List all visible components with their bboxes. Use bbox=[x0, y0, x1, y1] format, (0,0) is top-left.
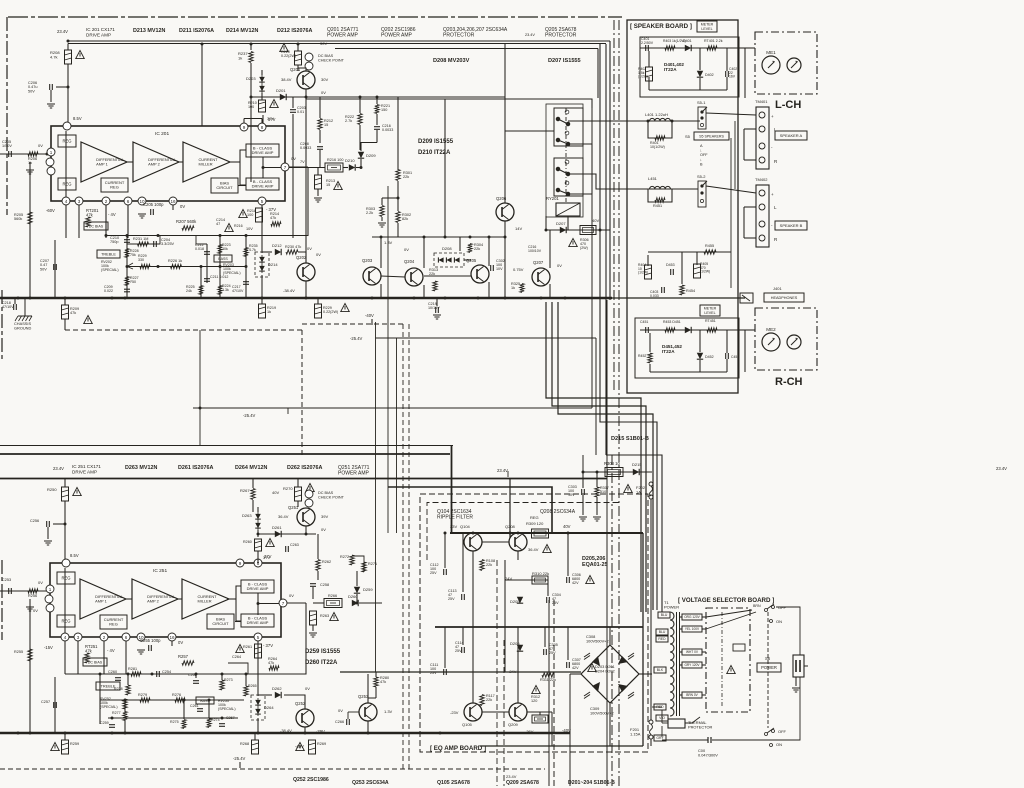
svg-text:RT201 47k: RT201 47k bbox=[86, 208, 100, 218]
r312 stub bbox=[539, 712, 541, 715]
q205 vert bbox=[488, 237, 490, 266]
wire protector rail bbox=[372, 236, 505, 238]
Q253 down b bbox=[367, 721, 369, 733]
svg-text:C258: C258 bbox=[320, 583, 329, 587]
svg-text:BLK: BLK bbox=[657, 668, 664, 672]
svg-text:C254: C254 bbox=[162, 670, 171, 674]
pin9 pin8 link bbox=[244, 118, 262, 120]
long vert 607 bbox=[606, 300, 608, 786]
wire q104 q208 base bbox=[482, 541, 509, 543]
svg-text:0V: 0V bbox=[404, 247, 409, 252]
svg-text:23.4V: 23.4V bbox=[506, 774, 517, 779]
harness eq 3 bbox=[569, 674, 571, 786]
red mid wire bbox=[652, 706, 662, 708]
svg-text:C204 3.3/25V: C204 3.3/25V bbox=[161, 238, 175, 246]
ground C219 bbox=[433, 315, 441, 319]
c303 up bbox=[582, 472, 584, 488]
svg-text:R452: R452 bbox=[638, 354, 646, 358]
resistor R206 bbox=[28, 152, 38, 156]
svg-text:C216 100/10V: C216 100/10V bbox=[528, 245, 542, 253]
wire out row2 bbox=[343, 167, 348, 169]
relay contact 2 point 0 bbox=[565, 160, 569, 164]
svg-text:S5: S5 bbox=[685, 134, 691, 139]
svg-text:RY201: RY201 bbox=[546, 196, 559, 201]
svg-text:Q208: Q208 bbox=[505, 524, 516, 529]
svg-text:D201: D201 bbox=[276, 88, 286, 93]
warning R306 bbox=[569, 239, 578, 247]
warning R270 bbox=[306, 484, 315, 492]
svg-text:DC BIAS: DC BIAS bbox=[88, 660, 103, 664]
speaker R feed bbox=[614, 188, 698, 190]
R302 down bbox=[397, 223, 399, 237]
IC201 bottom pin 16 bbox=[169, 197, 177, 205]
svg-text:R207 560k: R207 560k bbox=[176, 219, 197, 224]
svg-text:[ SPEAKER BOARD ]: [ SPEAKER BOARD ] bbox=[630, 23, 692, 30]
svg-text:R276: R276 bbox=[172, 693, 181, 697]
svg-text:Q203,204,206,207 2SC634A: Q203,204,206,207 2SC634A PROTECTOR bbox=[443, 27, 508, 39]
svg-text:C112 100 25V: C112 100 25V bbox=[430, 563, 440, 575]
svg-text:0V: 0V bbox=[33, 608, 38, 613]
R303 up stub bbox=[381, 198, 383, 205]
transformer T1 primary bbox=[670, 612, 680, 716]
warning R261 bbox=[236, 645, 245, 653]
filter v5 bbox=[699, 78, 701, 90]
svg-text:R205 560k: R205 560k bbox=[14, 213, 24, 221]
IC201 wire to drive top bbox=[240, 150, 246, 162]
bridge rectifier D201-D204 bbox=[581, 645, 639, 703]
svg-text:36.4V: 36.4V bbox=[278, 514, 289, 519]
svg-text:Q206: Q206 bbox=[496, 196, 507, 201]
tap wire wht bbox=[680, 651, 682, 653]
IC201 wire cm-b1 bbox=[230, 161, 240, 163]
wire label VIO bbox=[656, 715, 668, 721]
resistor RT401 bbox=[707, 46, 717, 50]
svg-text:D203 D201 D204 D202: D203 D201 D204 D202 bbox=[595, 664, 616, 674]
svg-text:POWER: POWER bbox=[761, 665, 777, 670]
diode D263 bbox=[255, 512, 261, 530]
svg-text:C257: C257 bbox=[41, 700, 50, 704]
svg-text:23.4V: 23.4V bbox=[497, 468, 508, 473]
ground input bbox=[26, 170, 34, 174]
capacitor C401 bbox=[646, 45, 649, 51]
c303 down bbox=[582, 495, 584, 515]
harness eq 2 bbox=[553, 600, 555, 786]
svg-text:C00 0.047/300V: C00 0.047/300V bbox=[698, 748, 718, 757]
tone rail low b bbox=[108, 717, 238, 719]
resistor R276 bbox=[175, 698, 185, 702]
R212 up bbox=[319, 97, 321, 118]
svg-text:ON: ON bbox=[776, 619, 782, 624]
resistor R209 bbox=[62, 305, 69, 319]
wire q201 top rail bbox=[320, 96, 398, 98]
svg-text:C266: C266 bbox=[335, 720, 344, 724]
tone vert x201 bbox=[200, 267, 202, 299]
svg-text:D212: D212 bbox=[272, 243, 282, 248]
svg-text:D213 MV12N: D213 MV12N bbox=[133, 28, 165, 34]
resistor R255 bbox=[28, 649, 32, 661]
svg-text:-15V: -15V bbox=[44, 645, 53, 650]
capacitor C306 bbox=[567, 577, 570, 583]
resistor R261 bbox=[255, 644, 262, 658]
node C206 bbox=[67, 86, 70, 89]
tap wire org bbox=[680, 616, 682, 618]
wire relay 40V row bbox=[546, 229, 610, 231]
eq b v1 bbox=[444, 627, 446, 668]
svg-text:T1 POWER: T1 POWER bbox=[664, 600, 679, 609]
svg-text:S5-2: S5-2 bbox=[697, 174, 706, 179]
IC251 wire to drive top bbox=[236, 586, 241, 599]
D203 top bbox=[261, 70, 263, 75]
dashed board left vert bbox=[301, 330, 303, 455]
ground C303 bbox=[579, 517, 587, 521]
IC251 pin 1 bbox=[46, 585, 54, 593]
C207 vertical bbox=[54, 240, 56, 298]
svg-text:D401,402 IT22A: D401,402 IT22A bbox=[664, 62, 685, 72]
IC201 pin 7 bbox=[281, 163, 289, 171]
svg-text:D453: D453 bbox=[666, 263, 675, 267]
svg-text:RT251 47k: RT251 47k bbox=[85, 644, 99, 654]
svg-text:37V: 37V bbox=[263, 555, 270, 560]
svg-text:REG: REG bbox=[530, 515, 539, 520]
capacitor C304 bbox=[547, 597, 550, 603]
arrow down 254 bbox=[239, 762, 241, 768]
eq v2 bbox=[462, 533, 464, 592]
svg-text:D401: D401 bbox=[683, 39, 692, 43]
svg-text:A ↓ OFF ↓ B: A ↓ OFF ↓ B bbox=[700, 144, 709, 166]
wire -25.4V lower bbox=[376, 337, 597, 339]
wire out row b bbox=[287, 602, 306, 604]
bus right vertical C bbox=[609, 41, 611, 300]
svg-text:40V: 40V bbox=[563, 524, 571, 529]
selector diag 2 bbox=[706, 612, 756, 629]
IC201 pin7 inner wire bbox=[263, 167, 281, 169]
resistor RT201 bbox=[86, 217, 90, 227]
transistor Q252 bbox=[296, 709, 314, 727]
svg-text:23.4V: 23.4V bbox=[57, 29, 68, 34]
svg-text:R216 100: R216 100 bbox=[327, 158, 343, 162]
tone rail top nodes bbox=[105, 234, 248, 237]
svg-text:9: 9 bbox=[239, 561, 242, 566]
inner frame top bbox=[335, 48, 598, 50]
eq b v4 bbox=[544, 627, 546, 647]
pin2 down b bbox=[103, 641, 105, 674]
svg-text:5: 5 bbox=[261, 199, 264, 204]
relay input stub bbox=[505, 130, 554, 132]
capacitor C261 bbox=[197, 709, 203, 712]
resistor R267 bbox=[251, 489, 255, 500]
dashed horiz y324 bbox=[302, 323, 403, 325]
rch meter vert bbox=[744, 330, 746, 372]
svg-text:BLU: BLU bbox=[659, 630, 666, 634]
speaker board outline bbox=[627, 20, 738, 393]
C203 drop bbox=[292, 114, 294, 238]
svg-text:MILLER: MILLER bbox=[199, 162, 213, 167]
svg-text:R225 24k: R225 24k bbox=[186, 285, 196, 293]
plug to bottom bbox=[712, 677, 800, 740]
svg-text:0V: 0V bbox=[307, 246, 312, 251]
C219 wire bbox=[436, 298, 438, 306]
svg-text:Q209: Q209 bbox=[508, 722, 519, 727]
svg-text:C210 750p: C210 750p bbox=[110, 236, 120, 244]
svg-text:R267: R267 bbox=[240, 488, 250, 493]
diode D208 c bbox=[454, 257, 459, 262]
warning R312 bbox=[532, 686, 541, 694]
L401 nodes bbox=[647, 120, 674, 123]
R250 to node b bbox=[64, 501, 66, 563]
IC201 inner node bbox=[262, 166, 265, 169]
IC251 bottom pin 4 bbox=[61, 633, 69, 641]
bridge top wire bbox=[609, 627, 611, 645]
svg-text:R402 1.5k (1/2W): R402 1.5k (1/2W) bbox=[638, 67, 648, 79]
svg-text:RV203 100k (SPECIAL): RV203 100k (SPECIAL) bbox=[223, 263, 241, 275]
transistor Q253 bbox=[359, 703, 377, 721]
svg-text:C452: C452 bbox=[731, 355, 739, 359]
q209 emitter wire bbox=[527, 711, 552, 713]
fuse F202 bbox=[649, 482, 653, 499]
spk vert a bbox=[743, 129, 745, 160]
resistor RT251 bbox=[85, 653, 89, 663]
capacitor C266 bbox=[347, 719, 350, 725]
relay link dash-dot bbox=[565, 108, 567, 204]
svg-text:-25.4V: -25.4V bbox=[243, 413, 256, 418]
resistor R108 22k bbox=[480, 560, 484, 571]
IC201 wire a1-a2 bbox=[127, 161, 133, 163]
svg-text:RV252 100k (SPECIAL): RV252 100k (SPECIAL) bbox=[100, 697, 118, 709]
svg-text:1.3V: 1.3V bbox=[384, 709, 393, 714]
SPEAKER A box bbox=[775, 131, 807, 140]
tone vert b b bbox=[195, 674, 197, 678]
warning C307 bbox=[588, 664, 597, 672]
switch S5-1 bbox=[698, 107, 707, 129]
diode D212 bbox=[275, 249, 281, 255]
svg-text:4: 4 bbox=[65, 199, 68, 204]
svg-text:S5-1: S5-1 bbox=[697, 100, 706, 105]
svg-text:Q205 2SA678 PROTECTOR: Q205 2SA678 PROTECTOR bbox=[545, 27, 578, 39]
capacitor C206 bbox=[50, 84, 53, 90]
svg-text:REG: REG bbox=[109, 622, 118, 627]
svg-text:R451: R451 bbox=[653, 204, 662, 208]
pin3 down bbox=[78, 205, 80, 238]
meter level box top bbox=[697, 21, 717, 32]
IC201 pin 1 bbox=[47, 148, 55, 156]
wire top right rail bbox=[380, 96, 505, 98]
svg-text:1: 1 bbox=[50, 150, 53, 155]
R270 up bbox=[297, 479, 299, 488]
C216 down bbox=[376, 130, 378, 143]
svg-text:C209 0.022: C209 0.022 bbox=[104, 285, 114, 293]
svg-text:R117 22k: R117 22k bbox=[486, 694, 496, 702]
svg-text:C401 2.2/50V: C401 2.2/50V bbox=[641, 37, 654, 45]
capacitor C111 bbox=[444, 669, 447, 675]
diode D452 bbox=[697, 353, 703, 359]
capacitor C258b bbox=[310, 584, 316, 587]
resistor R212 15 bbox=[318, 119, 322, 130]
input wire R bbox=[0, 590, 47, 592]
svg-text:DC BIAS CHECK POINT: DC BIAS CHECK POINT bbox=[318, 491, 345, 499]
pin7 wire b bbox=[287, 602, 306, 604]
svg-text:7: 7 bbox=[284, 165, 287, 170]
resistor R221 150 bbox=[375, 105, 379, 114]
wire label GRY2 bbox=[654, 735, 666, 741]
selector wire wht bbox=[702, 651, 706, 653]
svg-text:7V: 7V bbox=[300, 160, 305, 164]
top dash-dot border bbox=[8, 16, 622, 18]
relay arm 1a bbox=[558, 119, 568, 124]
svg-text:AMP 2: AMP 2 bbox=[148, 162, 160, 167]
filter bottom wire bbox=[649, 89, 727, 91]
svg-text:L451: L451 bbox=[648, 176, 658, 181]
wire q105 q209 link bbox=[482, 711, 509, 713]
EQ amp board dashed outline bbox=[420, 494, 648, 752]
pin16 down b bbox=[171, 641, 173, 646]
svg-text:23V: 23V bbox=[450, 524, 457, 529]
c264 wire bbox=[228, 663, 248, 674]
long vertical x388 bbox=[387, 186, 389, 533]
23.4V feed line B bbox=[388, 487, 552, 533]
wire 1.3V drop bbox=[459, 237, 461, 251]
harness wire 1 bbox=[552, 302, 646, 612]
filter v2 bbox=[699, 48, 701, 70]
svg-text:R304 22k: R304 22k bbox=[474, 243, 484, 251]
svg-text:0V: 0V bbox=[289, 593, 294, 598]
resistor R401 bbox=[655, 136, 665, 140]
capacitor C211 bbox=[204, 279, 210, 282]
relay arm 1b bbox=[558, 140, 568, 144]
L-CH meter dash box bbox=[755, 32, 817, 94]
meter level box bottom bbox=[700, 305, 720, 316]
output nodes bbox=[17, 297, 567, 300]
capacitor C204 bbox=[154, 241, 157, 247]
svg-text:R226 1k: R226 1k bbox=[168, 259, 182, 263]
wire D201 row bbox=[251, 96, 320, 98]
vertical x200 link bbox=[199, 330, 201, 446]
svg-text:Q252 2SC1986: Q252 2SC1986 bbox=[293, 777, 329, 783]
svg-text:-36V: -36V bbox=[525, 729, 534, 734]
spk vert b bbox=[743, 207, 745, 238]
eq v4 bbox=[547, 580, 549, 596]
left dash-dot border bbox=[6, 17, 8, 215]
POWER box S6 bbox=[757, 663, 781, 672]
relay arm 2b bbox=[558, 190, 568, 194]
svg-text:C267: C267 bbox=[226, 716, 235, 720]
IC251 internal 8.5V vertical bbox=[64, 568, 66, 633]
switch S6 contact bottom bbox=[765, 728, 775, 747]
capacitor C216 bbox=[374, 127, 380, 130]
x200 node bbox=[199, 407, 202, 410]
svg-text:D211 IS2076A: D211 IS2076A bbox=[179, 28, 214, 34]
svg-text:BRN: BRN bbox=[753, 604, 761, 608]
left branch vert b bbox=[29, 599, 31, 733]
relay contact 1 point 5 bbox=[566, 142, 570, 146]
svg-text:L: L bbox=[774, 205, 777, 210]
C218 wire bbox=[14, 298, 16, 304]
svg-text:R262: R262 bbox=[322, 560, 331, 564]
tone vert x207 bbox=[206, 244, 208, 283]
svg-text:IC 201 CX171 DRIVE AMP: IC 201 CX171 DRIVE AMP bbox=[86, 27, 116, 37]
capacitor C403 bbox=[662, 287, 665, 293]
svg-text:Q208 2SC634A: Q208 2SC634A bbox=[540, 509, 576, 515]
svg-text:REG: REG bbox=[62, 182, 71, 187]
tone x207 top link bbox=[196, 236, 207, 245]
svg-text:6: 6 bbox=[125, 635, 128, 640]
harness wire 0 bbox=[546, 302, 641, 612]
svg-text:D261 IS2076A: D261 IS2076A bbox=[178, 465, 213, 471]
svg-text:R259: R259 bbox=[70, 742, 79, 746]
wire label RED1 bbox=[656, 636, 668, 642]
resistor R225 24k bbox=[199, 286, 203, 295]
svg-text:BRN 0V: BRN 0V bbox=[686, 693, 698, 697]
pin5 down b bbox=[257, 641, 259, 668]
svg-text:R213 15: R213 15 bbox=[326, 179, 336, 187]
svg-text:R270: R270 bbox=[283, 486, 293, 491]
IC201 internal 8.5V vertical bbox=[65, 131, 67, 197]
resistor R303 2.2k bbox=[380, 206, 384, 217]
bridge corner cap 2 bbox=[584, 692, 590, 699]
D203 bottom bbox=[261, 93, 263, 100]
svg-text:RED: RED bbox=[658, 637, 666, 641]
svg-text:LEVEL: LEVEL bbox=[701, 27, 712, 31]
resistor R311 bbox=[542, 673, 554, 677]
q203 vert bbox=[380, 237, 382, 268]
svg-text:C307 6800 42V: C307 6800 42V bbox=[572, 658, 582, 670]
IC251 pin7 inner wire bbox=[258, 603, 279, 605]
resistor R229b bbox=[315, 304, 322, 318]
svg-text:D259: D259 bbox=[363, 587, 373, 592]
meter ME1 bbox=[762, 50, 780, 74]
relay top frame bbox=[306, 99, 592, 108]
svg-text:C208 0.0033: C208 0.0033 bbox=[300, 142, 311, 150]
R-CH filter box bbox=[635, 318, 739, 378]
svg-text:R309 120: R309 120 bbox=[526, 521, 544, 526]
warning R263 bbox=[330, 613, 339, 621]
R301 feed bbox=[397, 97, 399, 170]
d215 feed stub bbox=[582, 455, 584, 472]
r307 up bbox=[596, 472, 598, 487]
svg-text:C211 0.012: C211 0.012 bbox=[210, 275, 228, 279]
bottom section header thick line bbox=[0, 453, 450, 455]
diode D209 bbox=[358, 152, 364, 158]
svg-text:R227 750: R227 750 bbox=[130, 276, 140, 284]
harness v596 bbox=[595, 338, 597, 455]
IC251 pin 8t bbox=[254, 559, 262, 567]
heavy output bus bbox=[0, 297, 612, 300]
IC201 REG box top bbox=[58, 135, 76, 147]
selector jumper bbox=[733, 644, 745, 651]
svg-text:- 4V: - 4V bbox=[108, 212, 116, 217]
IC251 pin 7 bbox=[279, 599, 287, 607]
svg-text:Q203: Q203 bbox=[362, 258, 373, 263]
IC251 current miller bbox=[182, 579, 229, 619]
svg-text:C403 0.033: C403 0.033 bbox=[650, 290, 659, 298]
hp v1 bbox=[647, 255, 649, 266]
svg-text:TM402: TM402 bbox=[755, 177, 768, 182]
diode D261 bbox=[275, 531, 281, 537]
gry drop bbox=[661, 726, 663, 737]
relay contact 1 point 4 bbox=[556, 138, 560, 142]
svg-text:R279: R279 bbox=[138, 693, 147, 697]
warning selector bbox=[727, 666, 736, 674]
TM402 wire2 bbox=[744, 206, 756, 208]
diode D208 a bbox=[438, 257, 443, 262]
svg-text:R260: R260 bbox=[243, 540, 252, 544]
svg-text:R216: R216 bbox=[234, 224, 243, 228]
resistor R257 bbox=[182, 661, 194, 665]
q204 down bbox=[423, 285, 425, 298]
svg-text:23.4V: 23.4V bbox=[525, 33, 535, 37]
tone vert x220 bbox=[219, 236, 221, 299]
R213 stub bbox=[317, 168, 319, 175]
warning R218 bbox=[239, 210, 248, 218]
